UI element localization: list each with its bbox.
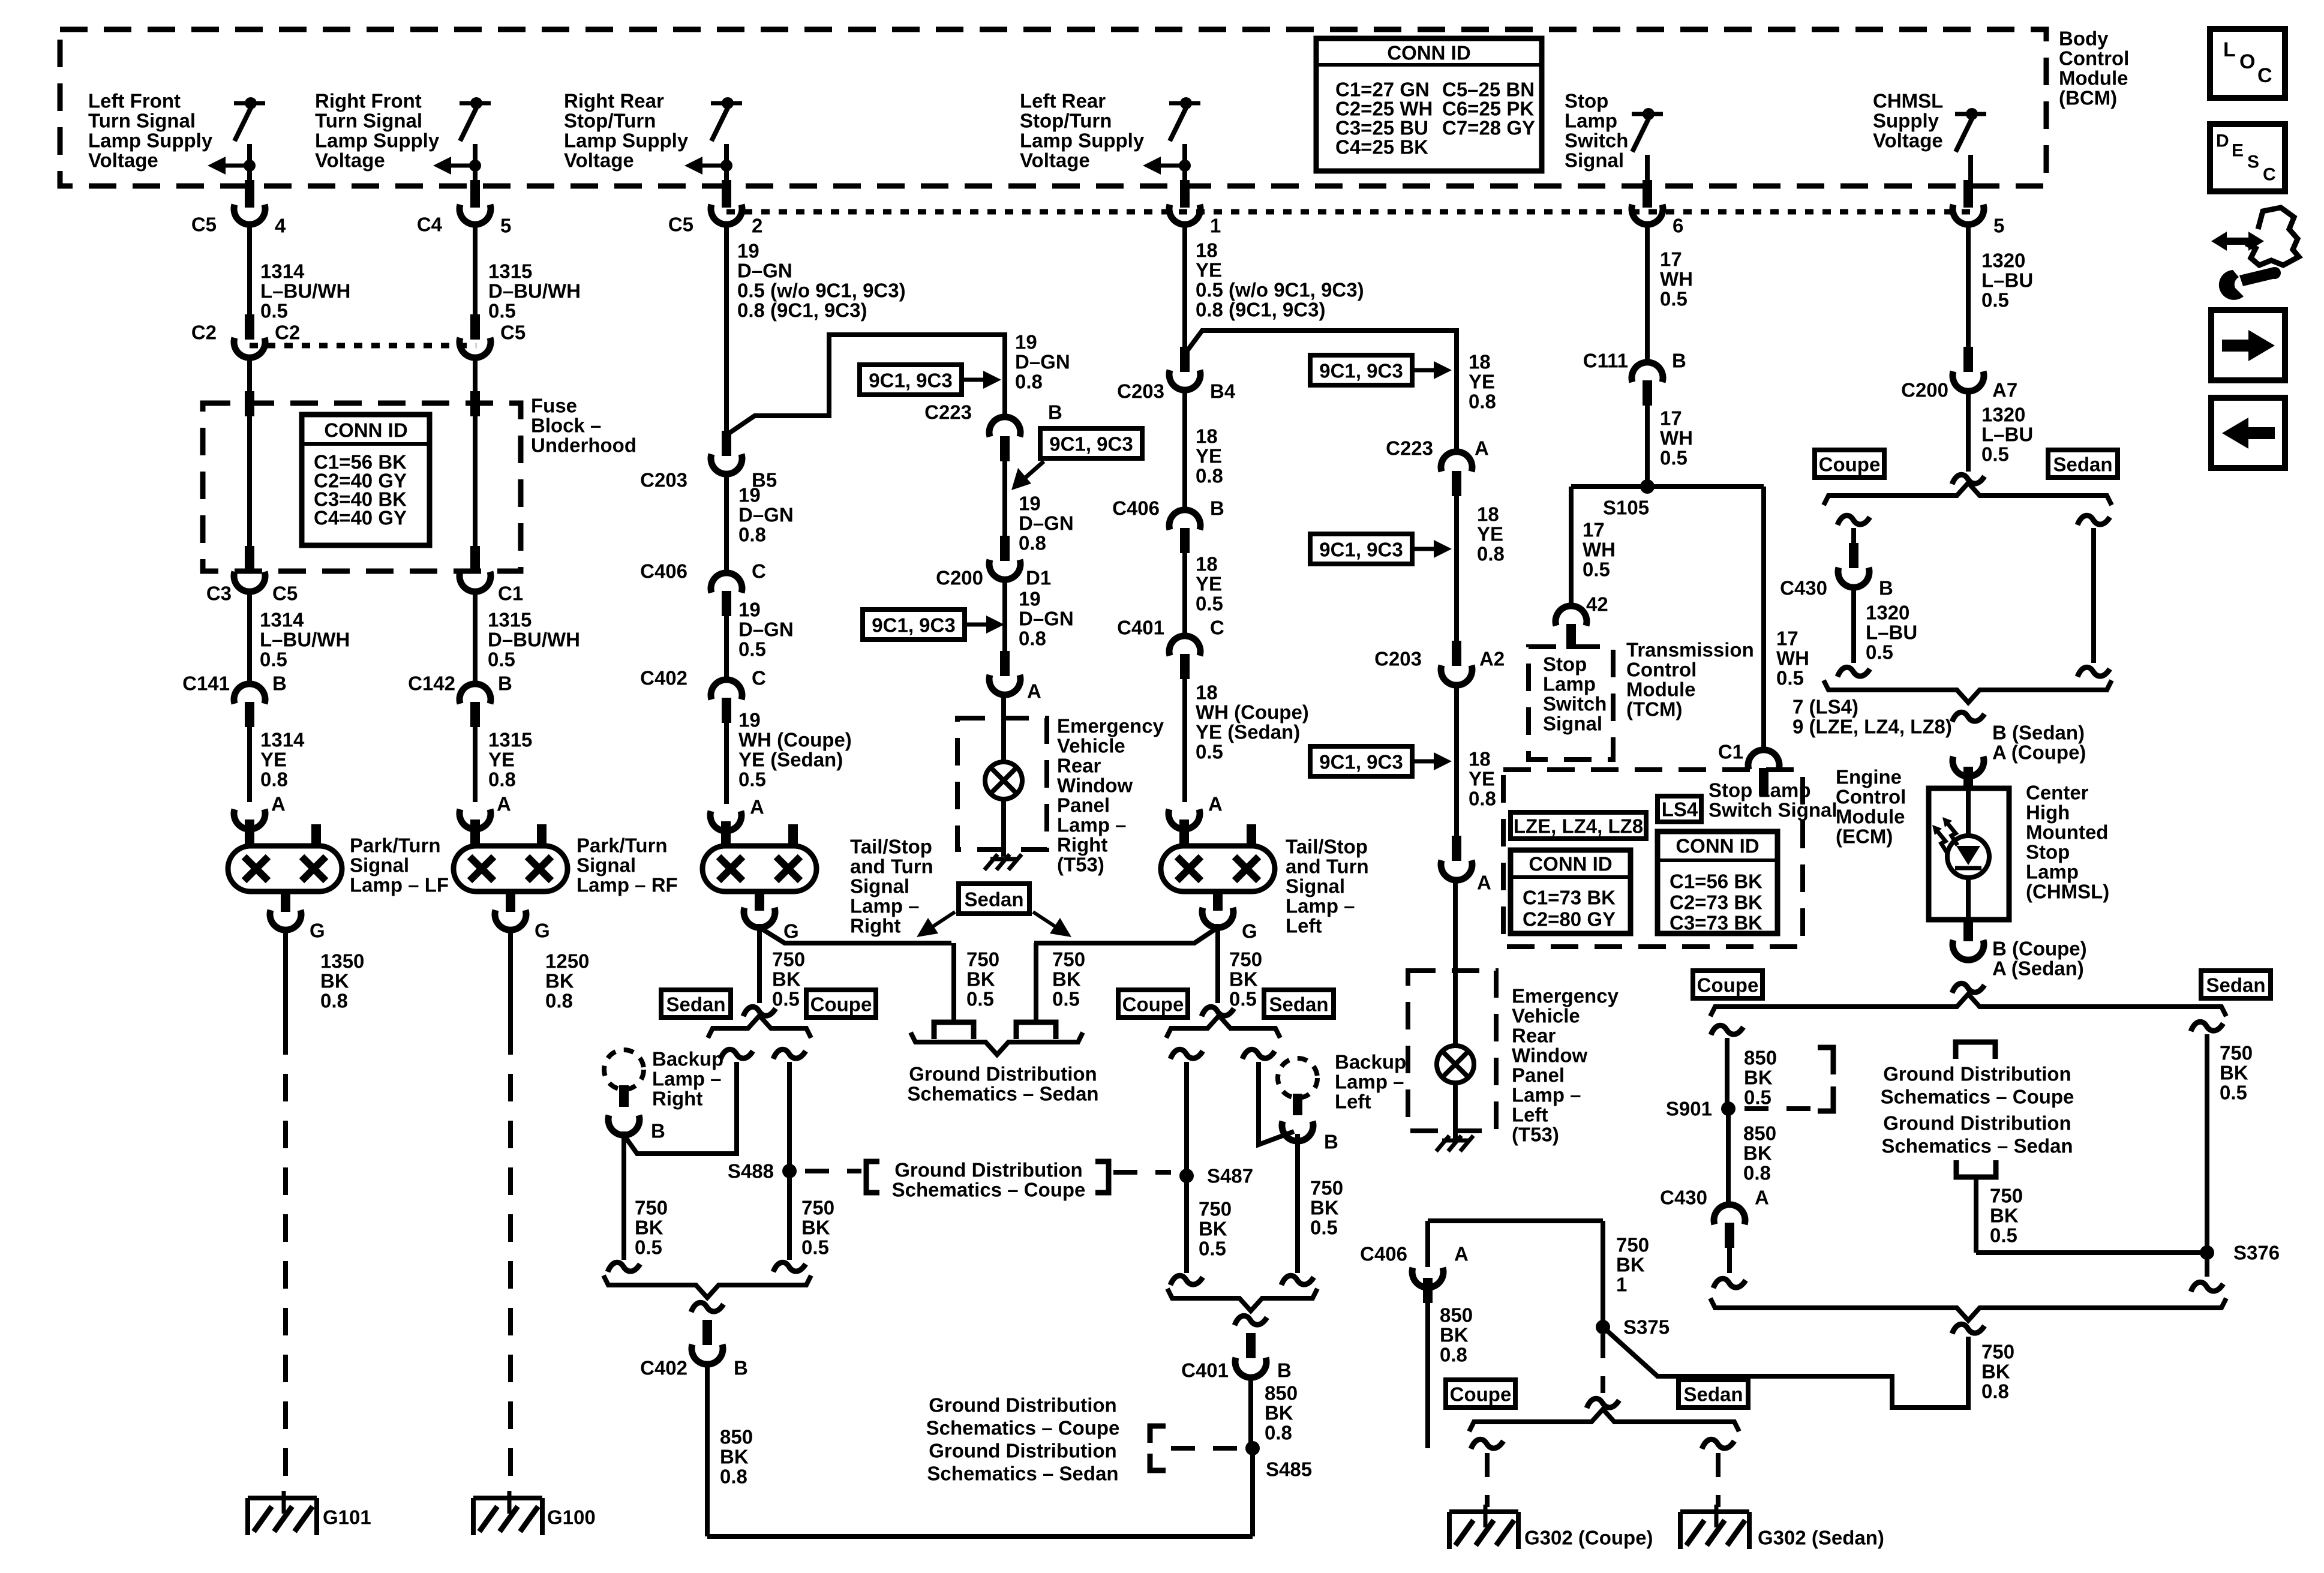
reference bracket to ground distribution sedan (RR) <box>934 1022 974 1039</box>
svg-text:C5: C5 <box>668 214 693 236</box>
wire below C430 A <box>1727 1248 1732 1273</box>
svg-text:BK: BK <box>1743 1142 1772 1164</box>
svg-text:0.5: 0.5 <box>1310 1217 1338 1239</box>
svg-text:C: C <box>752 667 766 689</box>
wire sedan branch joins backup lamp right <box>624 1062 737 1154</box>
svg-text:BK: BK <box>545 970 574 992</box>
svg-text:LS4: LS4 <box>1662 798 1698 821</box>
svg-text:C223: C223 <box>1386 437 1433 460</box>
connector pin 1 at BCM output x=1975 <box>1180 180 1190 208</box>
svg-text:Signal: Signal <box>1543 713 1602 735</box>
connector C203 pin B4 (LR) <box>1180 347 1190 372</box>
svg-text:0.5: 0.5 <box>1990 1224 2017 1247</box>
svg-text:17: 17 <box>1583 519 1605 541</box>
svg-text:A: A <box>1477 872 1491 894</box>
module box Engine Control Module (ECM) <box>1503 770 1803 947</box>
svg-text:9 (LZE, LZ4, LZ8): 9 (LZE, LZ4, LZ8) <box>1792 716 1952 738</box>
svg-text:C3: C3 <box>206 583 232 605</box>
connector C1 ECM <box>1748 750 1779 770</box>
svg-text:CONN ID: CONN ID <box>1676 835 1759 857</box>
wire 750 BK 0.5 sedan ground <box>2205 1034 2209 1277</box>
svg-text:B: B <box>651 1120 665 1142</box>
svg-text:C4=25 BK: C4=25 BK <box>1335 136 1428 158</box>
dashed reference from S901 <box>1744 1106 1812 1111</box>
svg-text:0.8: 0.8 <box>1019 628 1046 650</box>
ground chassis (emergency lamp right) <box>990 857 1017 861</box>
svg-text:Schematics – Coupe: Schematics – Coupe <box>892 1179 1086 1201</box>
wire into fuse block RF <box>473 358 478 391</box>
svg-text:Park/Turn: Park/Turn <box>577 834 668 857</box>
svg-text:19: 19 <box>1019 588 1041 610</box>
svg-text:CONN ID: CONN ID <box>1529 853 1612 875</box>
svg-text:18: 18 <box>1196 425 1218 448</box>
svg-text:850: 850 <box>1743 1122 1776 1145</box>
wire dashed to G100 <box>508 1027 513 1491</box>
wire break above C402 brace right <box>773 1262 806 1272</box>
switch CHMSL supply output <box>1955 112 1986 116</box>
svg-text:0.8: 0.8 <box>1981 1380 2009 1403</box>
wire 1314 L-BU/WH 0.5 (left front) <box>247 224 252 314</box>
svg-text:D–GN: D–GN <box>738 619 794 641</box>
svg-text:17: 17 <box>1776 628 1798 650</box>
svg-text:BK: BK <box>635 1217 663 1239</box>
svg-text:Ground Distribution: Ground Distribution <box>894 1159 1082 1181</box>
svg-text:B: B <box>1277 1359 1292 1382</box>
svg-text:C200: C200 <box>1901 379 1948 401</box>
svg-text:9C1, 9C3: 9C1, 9C3 <box>1319 360 1403 382</box>
lamp Tail/Stop and Turn Signal Lamp - Right <box>702 846 816 891</box>
svg-text:5: 5 <box>500 215 511 237</box>
svg-text:Lamp Supply: Lamp Supply <box>564 130 689 152</box>
lamp Park/Turn Signal Lamp - LF <box>228 846 342 891</box>
svg-text:750: 750 <box>1616 1234 1649 1256</box>
svg-text:C1=56 BK: C1=56 BK <box>1670 870 1762 893</box>
svg-text:A2: A2 <box>1479 648 1505 670</box>
svg-text:Center: Center <box>2026 782 2089 804</box>
svg-text:Stop: Stop <box>1565 90 1608 112</box>
svg-text:B (Coupe): B (Coupe) <box>1992 938 2087 960</box>
svg-text:C203: C203 <box>1117 380 1164 403</box>
wire inside fuse block LF <box>247 416 252 547</box>
wire break sedan branch (LR) <box>1242 1049 1275 1059</box>
svg-text:9C1, 9C3: 9C1, 9C3 <box>1049 433 1133 455</box>
wire break sedan branch bottom (CHMSL) <box>2077 667 2110 677</box>
svg-text:C4=40 GY: C4=40 GY <box>314 507 407 529</box>
svg-text:C200: C200 <box>936 567 983 589</box>
svg-text:Right: Right <box>1057 834 1107 856</box>
svg-text:WH: WH <box>1583 539 1616 561</box>
svg-text:1320: 1320 <box>1981 404 2025 426</box>
svg-text:C401: C401 <box>1117 617 1164 639</box>
svg-text:18: 18 <box>1469 748 1491 770</box>
svg-text:0.8: 0.8 <box>545 990 573 1012</box>
svg-text:C: C <box>1210 617 1224 639</box>
svg-text:1: 1 <box>1210 215 1221 237</box>
svg-text:C2=80 GY: C2=80 GY <box>1523 908 1616 930</box>
wire 750 BK 0.5 (backup/sedan) down <box>621 1131 626 1260</box>
svg-text:A: A <box>1454 1243 1469 1265</box>
svg-text:5: 5 <box>1993 215 2004 237</box>
svg-text:Sedan: Sedan <box>2053 454 2112 476</box>
LED symbol CHMSL <box>1947 836 1989 878</box>
svg-text:Module: Module <box>1836 806 1905 828</box>
dashed wire S375 to G302 split <box>1601 1334 1605 1393</box>
svg-text:YE: YE <box>1469 371 1495 393</box>
svg-text:Sedan: Sedan <box>1683 1383 1743 1406</box>
wire 1320 L-BU 0.5 below C430 <box>1851 587 1856 663</box>
wire 1315 D-BU/WH 0.5 (right front) <box>473 224 478 314</box>
wire 17 WH 0.5 to ECM <box>1761 487 1766 747</box>
svg-text:0.5: 0.5 <box>1866 641 1893 664</box>
svg-text:Turn Signal: Turn Signal <box>88 110 196 132</box>
svg-text:Right Front: Right Front <box>315 90 422 112</box>
svg-text:19: 19 <box>1019 493 1041 515</box>
wire into fuse block LF <box>247 358 252 391</box>
wire break above bottom brace (sedan) <box>2191 1282 2223 1292</box>
svg-text:19: 19 <box>738 599 761 621</box>
svg-text:Sedan: Sedan <box>964 888 1023 911</box>
wire 1350 BK 0.8 LF ground <box>283 930 288 1027</box>
wire branch LR to C223 pin A <box>1185 331 1457 449</box>
svg-text:Supply: Supply <box>1873 110 1939 132</box>
wire break coupe branch (LR) <box>1170 1049 1203 1059</box>
svg-text:Signal: Signal <box>1286 875 1345 897</box>
svg-text:LZE, LZ4, LZ8: LZE, LZ4, LZ8 <box>1514 815 1643 837</box>
svg-text:S105: S105 <box>1603 497 1649 519</box>
connector table CONN ID (ECM LS4) <box>1658 831 1777 933</box>
svg-text:BK: BK <box>1744 1067 1773 1089</box>
svg-text:Ground Distribution: Ground Distribution <box>1883 1112 2071 1134</box>
svg-text:0.8: 0.8 <box>1196 465 1223 487</box>
svg-text:0.5: 0.5 <box>1981 443 2009 466</box>
svg-text:0.5: 0.5 <box>801 1236 829 1259</box>
svg-text:0.5: 0.5 <box>1744 1086 1771 1109</box>
splice S487 <box>1179 1169 1194 1183</box>
wire break below S375 <box>1587 1398 1619 1408</box>
svg-text:S488: S488 <box>728 1160 774 1182</box>
splice S488 <box>782 1164 797 1178</box>
svg-text:BK: BK <box>1229 968 1258 990</box>
wire break below merge brace <box>1952 1324 1984 1334</box>
svg-text:0.5: 0.5 <box>1199 1238 1226 1260</box>
svg-text:BK: BK <box>1310 1197 1339 1219</box>
svg-text:YE (Sedan): YE (Sedan) <box>738 749 843 771</box>
svg-text:WH (Coupe): WH (Coupe) <box>738 729 852 751</box>
svg-text:Lamp –: Lamp – <box>1057 814 1127 836</box>
svg-text:Rear: Rear <box>1512 1025 1556 1047</box>
svg-text:0.5: 0.5 <box>2220 1082 2247 1104</box>
wire break above C401 brace left <box>1170 1275 1203 1285</box>
pin crossing fuse block bottom edge LF <box>245 546 254 574</box>
wire break above bottom brace (coupe) <box>1713 1278 1746 1288</box>
option callout 9C1, 9C3 (below C200) <box>863 610 965 640</box>
svg-text:D: D <box>2216 131 2229 151</box>
svg-text:Sedan: Sedan <box>1269 993 1328 1016</box>
svg-text:0.5: 0.5 <box>738 638 766 661</box>
dashed reference to S485 <box>1171 1446 1237 1451</box>
svg-text:0.5: 0.5 <box>1660 447 1688 469</box>
wire 18 YE 0.8 LR <box>1182 390 1187 507</box>
svg-text:42: 42 <box>1586 593 1608 616</box>
connector C402 pin C (RR) <box>711 680 742 700</box>
wire 19 WH/YE to RR lamp <box>724 723 729 804</box>
svg-text:17: 17 <box>1660 248 1682 271</box>
wire 850 BK 0.5 coupe ground <box>1725 1038 1730 1109</box>
connector C402 pin B <box>702 1320 712 1345</box>
svg-text:YE: YE <box>1477 523 1503 545</box>
connector interface dotted line (front, fuse block) <box>250 343 476 349</box>
option callout 9C1, 9C3 (RR branch) <box>860 365 962 395</box>
svg-text:B: B <box>1879 577 1893 599</box>
wire 19 D-GN right rear from BCM <box>724 224 729 431</box>
svg-text:High: High <box>2026 801 2070 824</box>
svg-text:750: 750 <box>1199 1198 1232 1220</box>
switch right front turn signal output <box>460 101 491 106</box>
svg-text:BK: BK <box>2220 1062 2248 1084</box>
svg-text:B (Sedan): B (Sedan) <box>1992 722 2085 744</box>
svg-text:S376: S376 <box>2233 1242 2280 1264</box>
svg-text:0.8: 0.8 <box>1469 788 1496 810</box>
lamp Backup Lamp - Left (dashed) <box>1278 1058 1317 1098</box>
svg-text:Rear: Rear <box>1057 755 1101 777</box>
svg-text:0.8: 0.8 <box>260 769 288 791</box>
wire 19 D-GN 0.8 to C200 <box>1002 461 1007 536</box>
wire 1320 L-BU 0.5 below C200 <box>1966 391 1971 472</box>
svg-text:C402: C402 <box>640 1357 687 1379</box>
svg-text:Coupe: Coupe <box>1697 974 1759 996</box>
svg-text:Signal: Signal <box>850 875 909 897</box>
svg-text:C2: C2 <box>191 322 217 344</box>
svg-text:0.5 (w/o 9C1, 9C3): 0.5 (w/o 9C1, 9C3) <box>737 280 906 302</box>
svg-text:G100: G100 <box>547 1506 596 1529</box>
svg-text:0.5: 0.5 <box>1052 988 1080 1010</box>
svg-text:C406: C406 <box>640 560 687 583</box>
wire break CHMSL top <box>1952 475 1984 484</box>
svg-text:Signal: Signal <box>1565 149 1624 172</box>
terminal A emergency lamp right <box>1000 651 1010 676</box>
svg-text:Switch: Switch <box>1543 693 1607 715</box>
icon box DESC <box>2210 124 2285 191</box>
svg-text:S: S <box>2247 152 2259 172</box>
connector pin C5 2 at BCM output x=1211 <box>722 180 731 208</box>
svg-text:B: B <box>1210 497 1224 520</box>
svg-text:1315: 1315 <box>488 260 532 283</box>
svg-text:G: G <box>1242 920 1257 942</box>
svg-text:BK: BK <box>720 1446 749 1468</box>
icon wrench with arrow <box>2211 232 2264 251</box>
svg-text:C401: C401 <box>1181 1359 1229 1382</box>
dashed wire to G302 sedan <box>1716 1453 1721 1507</box>
svg-text:C5: C5 <box>500 322 526 344</box>
svg-text:CONN ID: CONN ID <box>324 419 407 442</box>
terminal A park/turn lamp RF <box>460 809 491 829</box>
svg-text:Lamp – LF: Lamp – LF <box>350 874 449 896</box>
svg-text:C141: C141 <box>182 673 230 695</box>
svg-text:BK: BK <box>1199 1218 1227 1240</box>
svg-text:Fuse: Fuse <box>531 395 577 417</box>
lamp emergency vehicle rear window panel left <box>1453 971 1458 1047</box>
svg-text:CHMSL: CHMSL <box>1873 90 1943 112</box>
svg-text:Sedan: Sedan <box>2206 974 2265 996</box>
wire coupe branch to C430 <box>1851 528 1856 543</box>
svg-text:0.5: 0.5 <box>738 769 766 791</box>
wire break sedan branch top (CHMSL) <box>2077 515 2110 525</box>
svg-text:4: 4 <box>275 215 286 237</box>
svg-text:WH (Coupe): WH (Coupe) <box>1196 701 1309 724</box>
svg-text:G: G <box>310 920 325 942</box>
bracket tag ground distribution sedan (right) <box>1956 1160 1996 1177</box>
wire 17 WH 0.5 stop lamp switch signal <box>1645 224 1650 359</box>
splice S105 <box>1571 484 1764 489</box>
terminal A park/turn lamp LF <box>234 809 265 829</box>
connector C223 pin A <box>1441 452 1472 472</box>
svg-text:6: 6 <box>1673 215 1683 237</box>
svg-text:0.5: 0.5 <box>1229 988 1257 1010</box>
svg-text:Tail/Stop: Tail/Stop <box>850 836 932 858</box>
connector C430 pin A <box>1714 1205 1745 1224</box>
svg-text:Right: Right <box>652 1088 702 1110</box>
wire 18 WH/YE to LR lamp <box>1182 679 1187 802</box>
svg-text:G302 (Sedan): G302 (Sedan) <box>1758 1527 1884 1549</box>
svg-text:0.5: 0.5 <box>1196 741 1223 763</box>
svg-text:Signal: Signal <box>350 854 409 876</box>
connector C401 pin B <box>1246 1333 1256 1358</box>
svg-text:YE: YE <box>260 749 287 771</box>
wire bottom run to S485 <box>707 1534 1253 1539</box>
svg-text:0.5 (w/o 9C1, 9C3): 0.5 (w/o 9C1, 9C3) <box>1196 279 1364 301</box>
svg-text:Stop Lamp: Stop Lamp <box>1709 779 1811 801</box>
svg-text:C1: C1 <box>498 583 523 605</box>
svg-text:O: O <box>2239 50 2255 73</box>
terminal A tail/stop lamp right <box>710 811 741 831</box>
wire S485 down/left <box>1250 1448 1255 1536</box>
svg-text:750: 750 <box>2220 1042 2253 1064</box>
wire break coupe ground branch <box>1711 1025 1743 1035</box>
svg-text:YE: YE <box>1196 445 1222 467</box>
svg-text:1320: 1320 <box>1866 602 1909 624</box>
module box Emergency Vehicle Rear Window Panel Lamp - Left (T53) <box>1408 971 1496 1131</box>
terminal G tail/stop lamp right <box>755 891 764 911</box>
svg-text:Lamp: Lamp <box>1543 673 1596 695</box>
wire 18 YE 0.8 to C203 A2 <box>1454 496 1459 641</box>
svg-text:C223: C223 <box>924 401 972 424</box>
svg-text:850: 850 <box>1265 1382 1298 1404</box>
svg-text:Lamp – RF: Lamp – RF <box>577 874 678 896</box>
wire 750 BK 0.5 sedan path from RR lamp G <box>759 927 951 943</box>
svg-text:9C1, 9C3: 9C1, 9C3 <box>1319 751 1403 773</box>
svg-text:BK: BK <box>320 970 349 992</box>
connector C200 pin D1 <box>1000 536 1010 561</box>
svg-text:C203: C203 <box>1374 648 1422 670</box>
lamp Tail/Stop and Turn Signal Lamp - Left <box>1161 846 1275 891</box>
reference bracket (S901 tag) <box>1818 1047 1833 1111</box>
lamp Center High Mounted Stop Lamp (CHMSL) box <box>1929 788 2009 920</box>
icon box arrow right <box>2211 310 2285 380</box>
connector C141 pin B <box>234 684 265 704</box>
svg-text:Transmission: Transmission <box>1626 639 1754 661</box>
connector C406 pin B (LR) <box>1169 510 1200 530</box>
svg-text:9C1, 9C3: 9C1, 9C3 <box>869 370 952 392</box>
svg-text:0.5: 0.5 <box>772 988 800 1010</box>
svg-text:Voltage: Voltage <box>315 149 385 172</box>
svg-text:9C1, 9C3: 9C1, 9C3 <box>1319 539 1403 561</box>
svg-text:Voltage: Voltage <box>564 149 634 172</box>
brace ground distribution sedan tags <box>911 1032 1083 1055</box>
svg-text:B: B <box>1048 401 1062 424</box>
svg-text:G101: G101 <box>323 1506 371 1529</box>
reference bracket to ground distribution sedan (LR) <box>1016 1022 1056 1039</box>
module box Body Control Module (BCM) <box>60 29 2046 186</box>
svg-text:0.8: 0.8 <box>1265 1422 1292 1444</box>
svg-text:850: 850 <box>720 1426 753 1448</box>
svg-text:YE: YE <box>488 749 515 771</box>
label box Sedan (CHMSL ground) <box>2201 971 2271 998</box>
wire break below brace C402 <box>691 1302 723 1312</box>
switch right rear stop/turn output <box>711 101 742 106</box>
svg-text:Right: Right <box>850 915 900 937</box>
icon box LOC <box>2210 29 2285 98</box>
svg-text:1250: 1250 <box>545 950 589 972</box>
terminal CHMSL lamp top <box>1953 757 1984 776</box>
svg-text:(CHMSL): (CHMSL) <box>2026 881 2109 903</box>
svg-text:A: A <box>1208 793 1223 815</box>
wire 750 BK 0.5 (backup left) down <box>1295 1134 1300 1273</box>
svg-text:G302 (Coupe): G302 (Coupe) <box>1524 1527 1653 1549</box>
svg-text:YE: YE <box>1196 573 1222 595</box>
svg-text:(T53): (T53) <box>1512 1124 1559 1146</box>
terminal G park/turn lamp RF <box>506 891 515 912</box>
pin crossing fuse block top edge RF <box>470 391 480 416</box>
svg-text:0.8: 0.8 <box>1440 1344 1467 1366</box>
label box Coupe (G302) <box>1446 1380 1515 1407</box>
svg-text:0.8: 0.8 <box>1469 391 1496 413</box>
brace CHMSL coupe/sedan split <box>1824 483 2112 505</box>
svg-text:WH: WH <box>1660 268 1693 290</box>
brace G302 split coupe/sedan <box>1469 1409 1739 1431</box>
terminal A emergency lamp left <box>1452 836 1461 861</box>
svg-text:C142: C142 <box>408 673 455 695</box>
connector C2/C2 fuse block <box>245 314 254 340</box>
svg-text:WH: WH <box>1660 427 1693 449</box>
svg-text:B: B <box>272 673 287 695</box>
svg-text:1314: 1314 <box>260 260 305 283</box>
svg-text:18: 18 <box>1196 682 1218 704</box>
svg-text:18: 18 <box>1469 351 1491 373</box>
svg-text:Lamp –: Lamp – <box>1335 1071 1404 1093</box>
wire break sedan G302 branch <box>1702 1439 1734 1449</box>
svg-text:0.8 (9C1, 9C3): 0.8 (9C1, 9C3) <box>1196 299 1325 321</box>
connector pin 5 at BCM output x=3281 <box>1963 180 1973 208</box>
module box Fuse Block - Underhood <box>203 403 521 571</box>
svg-text:0.8: 0.8 <box>738 524 766 546</box>
connector C203 pin A2 <box>1452 641 1461 666</box>
pin crossing fuse block top edge LF <box>245 391 254 416</box>
wire RR lamp ground vertical <box>757 924 762 1003</box>
module box TCM stop lamp switch signal input <box>1529 647 1613 760</box>
svg-text:19: 19 <box>737 240 759 262</box>
svg-text:S375: S375 <box>1623 1316 1670 1338</box>
splice S375 <box>1596 1320 1610 1334</box>
svg-text:L: L <box>2223 38 2236 61</box>
wire 18 YE 0.5 LR <box>1182 553 1187 633</box>
svg-text:Turn Signal: Turn Signal <box>315 110 422 132</box>
svg-text:2: 2 <box>752 215 762 237</box>
svg-text:(BCM): (BCM) <box>2059 87 2117 109</box>
dashed reference to S487 <box>1113 1170 1171 1175</box>
connector C1 below fuse block <box>460 572 491 592</box>
svg-text:0.5: 0.5 <box>1196 593 1223 615</box>
svg-text:A (Sedan): A (Sedan) <box>1992 957 2084 980</box>
